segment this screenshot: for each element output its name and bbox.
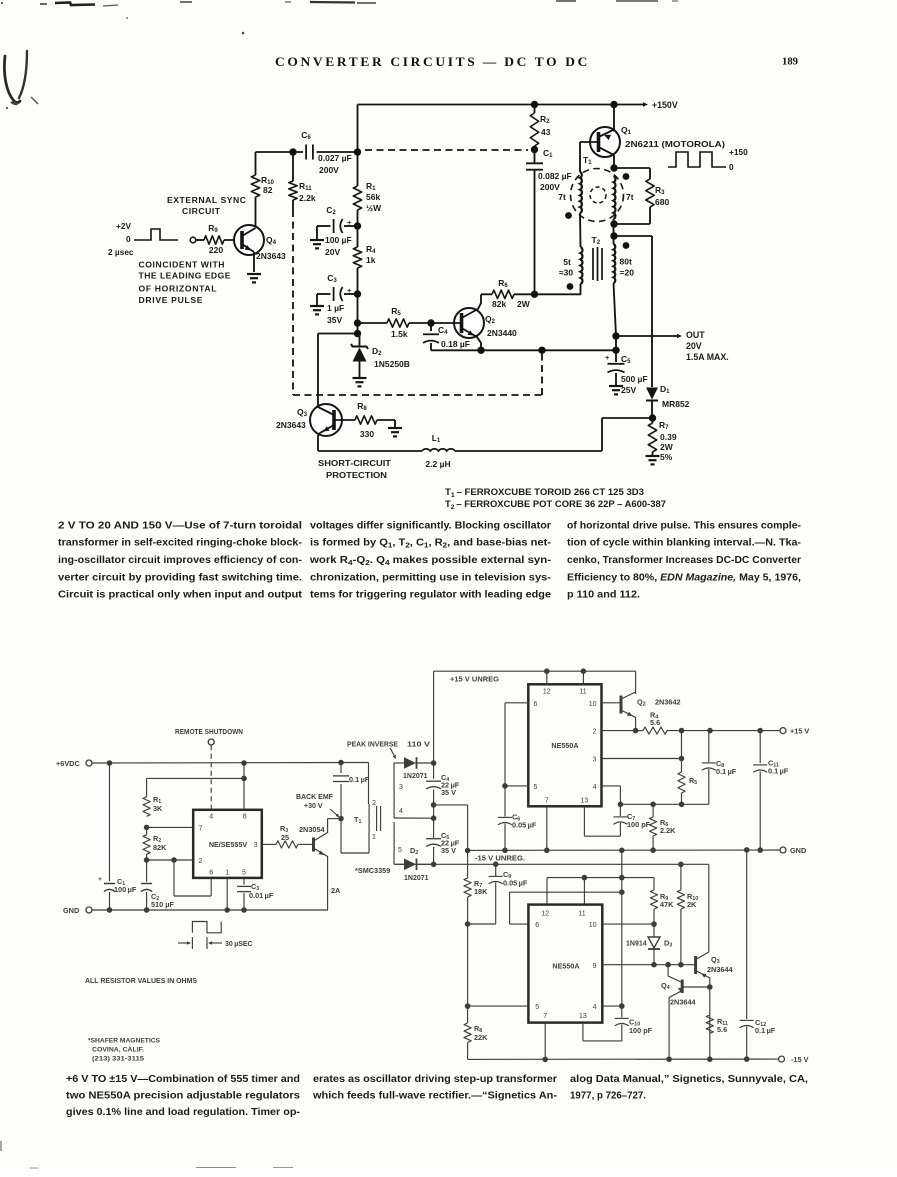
resistor R6 — [492, 290, 514, 298]
svg-text:+: + — [347, 286, 352, 295]
svg-text:47K: 47K — [660, 900, 674, 909]
svg-text:7t: 7t — [558, 192, 566, 202]
ground at C3 — [310, 305, 324, 307]
svg-text:+2V: +2V — [116, 221, 131, 231]
capacitor C2 555 — [146, 854, 148, 882]
wire primary bottom loop — [340, 819, 342, 853]
junction dot R10 top — [678, 862, 684, 868]
svg-text:1N2071: 1N2071 — [403, 773, 428, 780]
svg-text:1k: 1k — [366, 255, 376, 265]
junction dot gnd C3 — [241, 907, 247, 913]
output pulse waveform at Q1 — [668, 152, 726, 167]
junction dot R3 bottom — [610, 220, 617, 227]
svg-text:2.2K: 2.2K — [660, 826, 676, 835]
T2 winding right 80t — [614, 244, 616, 283]
svg-text:1N914: 1N914 — [626, 941, 647, 948]
svg-text:of horizontal drive pulse. Thi: of horizontal drive pulse. This ensures … — [567, 520, 801, 531]
junction dot riser 877 — [619, 875, 625, 881]
svg-text:5: 5 — [242, 870, 246, 877]
capacitor C6 555 — [504, 786, 506, 817]
svg-text:1.5k: 1.5k — [391, 329, 408, 339]
ground under C5 — [609, 385, 623, 387]
svg-text:NE550A: NE550A — [551, 741, 578, 750]
wire to Q3 collector — [318, 333, 358, 335]
svg-text:20V: 20V — [325, 247, 340, 257]
svg-text:2N3642: 2N3642 — [655, 698, 681, 707]
svg-text:7t: 7t — [626, 192, 634, 202]
resistor R8 555 — [467, 1006, 469, 1023]
T1 primary winding left 7t — [580, 172, 582, 213]
svg-text:1N5250B: 1N5250B — [374, 359, 410, 369]
wire emitter Q3 to L1 — [318, 450, 422, 452]
svg-text:EXTERNAL SYNC: EXTERNAL SYNC — [167, 195, 246, 205]
transistor Q3 2N3643 — [310, 404, 342, 436]
svg-text:6: 6 — [535, 922, 539, 929]
junction dot pin7 lower — [542, 1057, 548, 1063]
svg-text:35 V: 35 V — [441, 788, 456, 797]
svg-text:3: 3 — [254, 842, 258, 849]
svg-text:3K: 3K — [153, 804, 163, 813]
svg-text:82k: 82k — [492, 299, 506, 309]
resistor R11 — [292, 152, 294, 181]
transistor Q4 2N3643 — [234, 225, 264, 255]
junction dot C4 top — [427, 319, 434, 326]
resistor R5 — [358, 322, 388, 324]
junction dot R5 wire — [354, 319, 361, 326]
wire mid to GND rail — [434, 804, 468, 806]
IC NE550A upper box — [528, 684, 601, 806]
transistor Q1 2N6211 — [590, 127, 620, 157]
wire secondary top to D1 — [393, 763, 395, 789]
junction dot Q4 collector riser — [665, 962, 671, 968]
svg-text:2N3644: 2N3644 — [707, 965, 734, 974]
wire pin6 loop — [173, 860, 175, 896]
svg-text:5: 5 — [534, 784, 538, 791]
junction dot long riser top — [619, 848, 625, 854]
wire pin10 lower — [602, 923, 654, 925]
resistor R3 — [614, 167, 650, 169]
svg-text:100 µF: 100 µF — [325, 235, 352, 245]
capacitor C11 — [759, 731, 761, 763]
svg-text:0.05 µF: 0.05 µF — [503, 879, 528, 888]
junction dot C9 top — [493, 861, 499, 867]
wire -15 unreg corner to Q3 — [708, 864, 710, 952]
junction dot Q4 base — [707, 984, 713, 990]
svg-text:T1 – FERROXCUBE TOROID 266 CT: T1 – FERROXCUBE TOROID 266 CT 125 3D3 — [445, 487, 644, 499]
wire pin8 riser — [243, 763, 245, 810]
svg-text:chronization, permitting use i: chronization, permitting use in televisi… — [310, 572, 551, 583]
svg-text:Circuit is practical only when: Circuit is practical only when input and… — [58, 590, 303, 601]
svg-text:2N3644: 2N3644 — [670, 998, 697, 1007]
junction dot gnd C2 — [144, 907, 150, 913]
svg-text:510 µF: 510 µF — [151, 900, 174, 909]
junction dot C11 bottom — [757, 847, 763, 853]
svg-text:+150: +150 — [729, 147, 748, 157]
svg-text:1 µF: 1 µF — [327, 303, 344, 313]
svg-text:BACK EMF: BACK EMF — [296, 794, 334, 801]
diode D1 1N2071 — [404, 757, 416, 769]
wire emitter rail — [431, 349, 616, 351]
svg-text:5t: 5t — [563, 257, 571, 267]
resistor R1 555 — [143, 797, 150, 817]
wire pin5 — [505, 785, 528, 787]
junction dot R6 bottom — [650, 847, 656, 853]
svg-text:REMOTE SHUTDOWN: REMOTE SHUTDOWN — [175, 727, 243, 736]
junction dot pin6 loop — [171, 857, 177, 863]
svg-text:6: 6 — [534, 701, 538, 708]
svg-text:7: 7 — [545, 798, 549, 805]
svg-text:CONVERTER CIRCUITS — DC TO DC: CONVERTER CIRCUITS — DC TO DC — [275, 55, 590, 69]
svg-text:82: 82 — [263, 185, 273, 195]
svg-text:+15 V UNREG: +15 V UNREG — [450, 675, 499, 684]
capacitor C10 — [621, 1006, 623, 1017]
svg-text:+: + — [605, 353, 610, 362]
wire collector to back emf node — [328, 818, 341, 820]
junction dot R10 bottom — [678, 962, 684, 968]
junction dot Q2 emitter — [633, 728, 639, 734]
svg-text:0.1 µF: 0.1 µF — [768, 767, 789, 776]
junction dot pin11 lower — [582, 875, 588, 881]
svg-text:2.2 µH: 2.2 µH — [425, 459, 450, 469]
capacitor C8 — [708, 769, 710, 804]
diode D1 MR852 — [646, 388, 658, 400]
junction dot C12 bottom — [744, 1056, 750, 1062]
svg-text:220: 220 — [209, 245, 223, 255]
terminal +6VDC — [86, 760, 92, 766]
T2 winding left 5t — [581, 247, 583, 284]
junction dot C11 top — [757, 728, 763, 734]
transformer T1 dashed toroid outline — [571, 169, 624, 222]
arrow peak inverse — [390, 748, 395, 757]
resistor R5 555 — [678, 772, 685, 793]
junction dot R11 top — [289, 148, 296, 155]
junction dot D2 branch — [354, 330, 361, 337]
resistor R8 — [355, 416, 377, 424]
resistor R2 555 — [146, 827, 148, 834]
junction dot pin10 lower — [651, 921, 657, 927]
resistor R10 — [680, 864, 682, 890]
scan speck — [242, 32, 245, 35]
svg-text:100 pF: 100 pF — [629, 1026, 653, 1035]
wire 877 header line — [547, 877, 654, 879]
svg-text:22K: 22K — [474, 1033, 488, 1042]
svg-text:4: 4 — [209, 814, 213, 821]
wire to pin 7 — [147, 826, 194, 828]
resistor R1 — [353, 186, 361, 210]
capacitor C5 — [615, 350, 617, 362]
svg-text:5%: 5% — [660, 452, 673, 462]
arrow to +150V — [620, 104, 645, 106]
svg-text:0.027 µF: 0.027 µF — [318, 153, 352, 163]
scan mark top edge — [40, 3, 47, 5]
wire pin6 loop lower — [510, 923, 529, 925]
svg-text:GND: GND — [790, 846, 806, 855]
junction dot pin12 riser top — [544, 668, 550, 674]
wire pin4 lower — [602, 1005, 622, 1007]
resistor R2 — [534, 105, 536, 114]
wire pin1 to gnd — [226, 878, 228, 910]
wire pin3 sense — [602, 758, 682, 760]
transistor Q2 2N3440 — [454, 308, 484, 338]
junction dot R7 bottom — [465, 921, 471, 927]
svg-text:4: 4 — [593, 1004, 597, 1011]
svg-text:ALL RESISTOR VALUES IN OHMS: ALL RESISTOR VALUES IN OHMS — [85, 976, 197, 985]
ground under D2 — [353, 377, 367, 379]
svg-text:1977, p 726–727.: 1977, p 726–727. — [570, 1091, 646, 1102]
svg-text:7: 7 — [199, 826, 203, 833]
wire pin7 to GND — [546, 806, 548, 850]
resistor R7 — [652, 418, 654, 423]
wire T1 to T2 right — [613, 219, 615, 244]
junction dot C3 — [354, 290, 361, 297]
junction dot pin11 riser top — [581, 668, 587, 674]
svg-text:9: 9 — [593, 963, 597, 970]
svg-text:0.39: 0.39 — [660, 432, 677, 442]
svg-text:20V: 20V — [686, 341, 702, 351]
svg-text:*SHAFER MAGNETICS: *SHAFER MAGNETICS — [88, 1038, 160, 1045]
junction dot emitter — [477, 347, 484, 354]
ground under Q4 — [247, 273, 261, 275]
wire pin11 riser lower — [583, 878, 585, 905]
phase dot T2 left — [567, 283, 574, 290]
wire pin12 riser lower — [546, 878, 548, 905]
svg-text:6: 6 — [209, 870, 213, 877]
junction dot C7 top — [618, 802, 624, 808]
svg-text:p 110 and 112.: p 110 and 112. — [567, 590, 640, 601]
junction dot C4-C5 mid — [431, 802, 437, 808]
dashed shield boundary top — [365, 149, 528, 151]
resistor R6 555 — [652, 804, 654, 817]
junction dot right branch — [610, 232, 617, 239]
transformer T2 core lines — [592, 248, 594, 280]
svg-text:5: 5 — [535, 1004, 539, 1011]
svg-text:*SMC3359: *SMC3359 — [355, 866, 390, 875]
svg-text:2N3643: 2N3643 — [256, 251, 286, 261]
junction dot pin7 gnd — [544, 848, 550, 854]
wire pin5 lower — [468, 1005, 529, 1007]
transistor 2N3054 — [312, 838, 315, 852]
junction dot pin3 — [679, 756, 685, 762]
svg-text:80t: 80t — [620, 257, 632, 267]
svg-text:1: 1 — [372, 834, 376, 841]
svg-text:-15 V UNREG.: -15 V UNREG. — [475, 854, 525, 863]
svg-text:=20: =20 — [620, 268, 635, 278]
junction dot R2 top — [531, 101, 538, 108]
svg-text:voltages differ significantly.: voltages differ significantly. Blocking … — [310, 520, 551, 531]
wire +150V top rail — [358, 104, 621, 106]
svg-text:0.01 µF: 0.01 µF — [249, 891, 274, 900]
svg-text:which feeds full-wave rectifie: which feeds full-wave rectifier.—“Signet… — [312, 1091, 557, 1102]
svg-text:0.1 µF: 0.1 µF — [349, 775, 370, 784]
svg-text:82K: 82K — [153, 843, 167, 852]
svg-text:189: 189 — [782, 56, 798, 68]
svg-text:1.5A MAX.: 1.5A MAX. — [686, 352, 729, 362]
zener diode D2 1N5250B — [359, 334, 361, 347]
wire 804 line — [620, 803, 708, 805]
phase dot T1 right — [623, 173, 630, 180]
phase dot T2 right — [623, 242, 630, 249]
svg-text:+6VDC: +6VDC — [56, 759, 80, 768]
svg-text:2: 2 — [199, 858, 203, 865]
svg-text:cenko, Transformer Increases D: cenko, Transformer Increases DC-DC Conve… — [567, 555, 801, 566]
capacitor C4 — [430, 323, 432, 331]
wire pin4 to C7 — [602, 785, 621, 787]
resistor R10 — [255, 152, 257, 175]
svg-text:-15 V: -15 V — [791, 1055, 809, 1064]
transformer T1 secondary winding upper — [393, 789, 395, 818]
svg-text:680: 680 — [655, 197, 669, 207]
svg-text:work R4-Q2. Q4 makes possible: work R4-Q2. Q4 makes possible external s… — [309, 555, 551, 567]
wire T1 to T2 left — [579, 213, 582, 247]
junction dot Q4 emitter rail — [666, 1056, 672, 1062]
svg-text:2N3440: 2N3440 — [487, 328, 517, 338]
diode D3 1N914 — [653, 924, 655, 936]
svg-text:COINCIDENT WITH: COINCIDENT WITH — [139, 260, 225, 270]
wire R7 to C9 — [468, 923, 496, 925]
svg-text:+: + — [98, 876, 102, 883]
dashed shield boundary bottom — [293, 394, 542, 396]
input pulse waveform symbol — [134, 229, 178, 240]
input terminal — [190, 237, 196, 243]
junction dot dashed riser — [538, 347, 545, 354]
wire pin7 lower — [544, 1023, 546, 1060]
svg-text:2: 2 — [593, 729, 597, 736]
svg-text:1: 1 — [225, 870, 229, 877]
arrow back emf — [330, 809, 338, 816]
wire pin6 pin5 left link — [505, 702, 528, 704]
svg-text:5.6: 5.6 — [650, 718, 660, 727]
junction dot C8 top — [707, 728, 713, 734]
wire GND rail — [468, 849, 780, 851]
svg-text:Efficiency to 80%, EDN Magazin: Efficiency to 80%, EDN Magazine, May 5, … — [567, 572, 801, 583]
wire L1 to D1 — [455, 450, 602, 452]
svg-text:+6 V TO ±15 V—Combination of 5: +6 V TO ±15 V—Combination of 555 timer a… — [66, 1074, 300, 1085]
svg-text:43: 43 — [541, 127, 551, 137]
scan ink hook mark left margin — [4, 56, 20, 103]
IC NE/SE555V box — [193, 810, 262, 878]
wire pin11 riser upper — [582, 671, 584, 684]
capacitor C4 555 — [433, 763, 435, 779]
junction dot GND rail start — [465, 848, 471, 854]
junction dot main/C6 — [354, 148, 361, 155]
svg-text:tion of cycle within blanking: tion of cycle within blanking interval.—… — [567, 538, 801, 549]
svg-text:GND: GND — [63, 906, 79, 915]
svg-text:110 V: 110 V — [407, 740, 430, 749]
junction dot fb riser — [679, 728, 685, 734]
svg-text:2W: 2W — [517, 299, 531, 309]
junction dot pin5 — [502, 783, 508, 789]
svg-text:13: 13 — [581, 798, 589, 805]
junction dot pin4 lower — [619, 1003, 625, 1009]
svg-text:0.1 µF: 0.1 µF — [716, 767, 737, 776]
junction dot C1 top — [531, 146, 538, 153]
svg-text:100 pF: 100 pF — [627, 820, 651, 829]
svg-text:½W: ½W — [366, 203, 382, 213]
wire pin2 to +15V — [602, 730, 636, 732]
junction dot pin8 wire — [241, 776, 247, 782]
capacitor C2 — [344, 225, 358, 227]
svg-text:35 V: 35 V — [441, 846, 456, 855]
svg-text:≈30: ≈30 — [559, 268, 573, 278]
svg-text:2N3054: 2N3054 — [299, 825, 326, 834]
junction dot R5 bottom — [679, 802, 685, 808]
ground at R8 — [388, 427, 402, 429]
svg-text:10: 10 — [589, 922, 597, 929]
svg-text:verter circuit by providing fa: verter circuit by providing fast switchi… — [58, 572, 302, 583]
dashed wire remote shutdown pin4 — [210, 746, 212, 810]
svg-text:13: 13 — [579, 1013, 587, 1020]
wire +6VDC rail — [92, 762, 369, 765]
junction dot center tap — [431, 815, 437, 821]
terminal -15V — [779, 1056, 785, 1062]
junction dot D1 bottom — [649, 414, 656, 421]
wire long riser GND to pin4 — [621, 850, 623, 1006]
svg-text:two NE550A precision adjustabl: two NE550A precision adjustable regulato… — [66, 1091, 300, 1102]
junction dot gnd C1 — [107, 907, 113, 913]
wire rail corner to Q2 collector — [635, 671, 637, 694]
svg-text:7: 7 — [543, 1013, 547, 1020]
svg-text:NE550A: NE550A — [552, 962, 579, 971]
resistor R9 — [653, 878, 655, 890]
svg-text:2W: 2W — [660, 442, 674, 452]
svg-text:330: 330 — [360, 429, 374, 439]
capacitor C1 — [534, 150, 536, 164]
wire left chain R7 — [467, 851, 469, 879]
svg-text:2: 2 — [372, 800, 376, 807]
svg-text:11: 11 — [578, 911, 585, 918]
svg-text:2N3643: 2N3643 — [276, 420, 306, 430]
svg-text:ing-oscillator circuit improve: ing-oscillator circuit improves efficien… — [58, 555, 302, 566]
wire T2 left bottom — [580, 284, 582, 294]
svg-text:2N6211 (MOTOROLA): 2N6211 (MOTOROLA) — [625, 139, 725, 149]
svg-text:12: 12 — [541, 911, 549, 918]
junction dot Q1 top — [610, 101, 617, 108]
capacitor C3 — [344, 293, 358, 295]
svg-text:10: 10 — [589, 701, 597, 708]
svg-text:4: 4 — [399, 808, 403, 815]
svg-text:200V: 200V — [319, 165, 339, 175]
wire 555 ground rail — [92, 909, 328, 911]
transistor Q2 2N3642 — [620, 696, 623, 714]
junction dot C2 — [354, 222, 361, 229]
svg-text:5: 5 — [398, 847, 402, 854]
svg-text:0.05 µF: 0.05 µF — [512, 821, 537, 830]
capacitor C6 — [305, 145, 307, 160]
terminal remote shutdown — [208, 739, 214, 745]
resistor R4 555 — [636, 730, 643, 732]
waveform arrows 30usec — [178, 942, 190, 944]
wire T2 right bottom to OUT — [614, 283, 617, 336]
svg-text:18K: 18K — [474, 887, 488, 896]
wire -15V rail — [468, 1058, 778, 1060]
svg-text:THE LEADING EDGE: THE LEADING EDGE — [139, 271, 231, 281]
capacitor C3 555 — [243, 878, 245, 885]
junction dot pin2 wire — [144, 857, 150, 863]
junction dot gnd pin1 — [224, 907, 230, 913]
diode D2 1N2071 — [404, 859, 416, 871]
transformer T1 secondary winding lower — [393, 822, 395, 852]
svg-text:(213) 331-3115: (213) 331-3115 — [92, 1056, 144, 1063]
svg-text:500 µF: 500 µF — [621, 374, 648, 384]
junction dot C5 — [612, 347, 619, 354]
junction dot 0.1uF branch — [338, 760, 344, 766]
junction dot pin5 lower — [465, 1003, 471, 1009]
svg-text:25V: 25V — [621, 385, 636, 395]
transistor Q3 2N3644 — [694, 956, 697, 974]
svg-text:COVINA, CALIF.: COVINA, CALIF. — [92, 1047, 144, 1054]
svg-text:tems for triggering regulator: tems for triggering regulator with leadi… — [310, 590, 551, 601]
junction dot C5 bottom — [431, 862, 437, 868]
